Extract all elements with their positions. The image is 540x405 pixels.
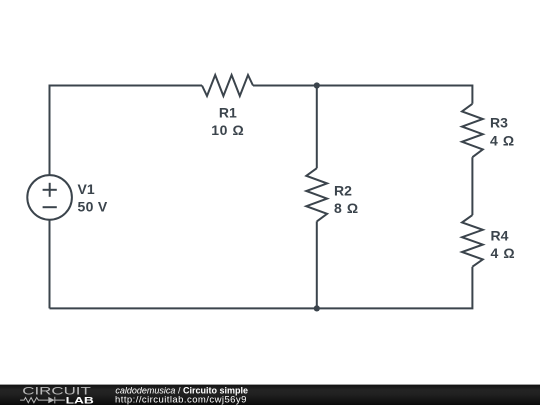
svg-text:R3: R3	[490, 115, 508, 131]
svg-text:4 Ω: 4 Ω	[490, 133, 515, 149]
resistor R2	[306, 168, 327, 221]
svg-text:V1: V1	[78, 181, 95, 197]
svg-text:R4: R4	[491, 227, 509, 243]
logo diode triangle	[48, 397, 54, 403]
wire R3 bottom to R4 top	[471, 157, 473, 215]
svg-text:50 V: 50 V	[78, 198, 108, 214]
V1 minus sign	[43, 206, 57, 208]
svg-text:R1: R1	[219, 105, 237, 121]
wire R1 right to node N1 to top-right corner down to R3 top	[253, 86, 472, 104]
wire R4 bottom to bottom-right corner to bottom-left corner	[50, 267, 473, 309]
svg-text:10 Ω: 10 Ω	[211, 122, 244, 138]
logo resistor squiggle and diode	[20, 397, 65, 404]
resistor R1	[202, 75, 253, 96]
svg-text:R2: R2	[334, 182, 352, 198]
svg-text:LAB: LAB	[66, 395, 95, 405]
wire R2 bottom to node N2	[316, 221, 318, 308]
node N2 junction dot	[314, 305, 320, 311]
svg-text:8 Ω: 8 Ω	[334, 200, 359, 216]
svg-text:4 Ω: 4 Ω	[491, 245, 516, 261]
resistor R4	[462, 215, 483, 267]
voltage source V1 circle	[27, 175, 72, 220]
V1 plus sign	[43, 189, 57, 191]
wire top-left: V1 top to R1 left	[50, 86, 203, 176]
node N1 junction dot	[314, 82, 320, 88]
resistor R3	[462, 104, 483, 157]
svg-text:http://circuitlab.com/cwj56y9: http://circuitlab.com/cwj56y9	[115, 394, 247, 405]
wire node N1 down to R2 top	[316, 86, 318, 169]
wire V1 bottom to bottom-left corner	[49, 220, 51, 309]
